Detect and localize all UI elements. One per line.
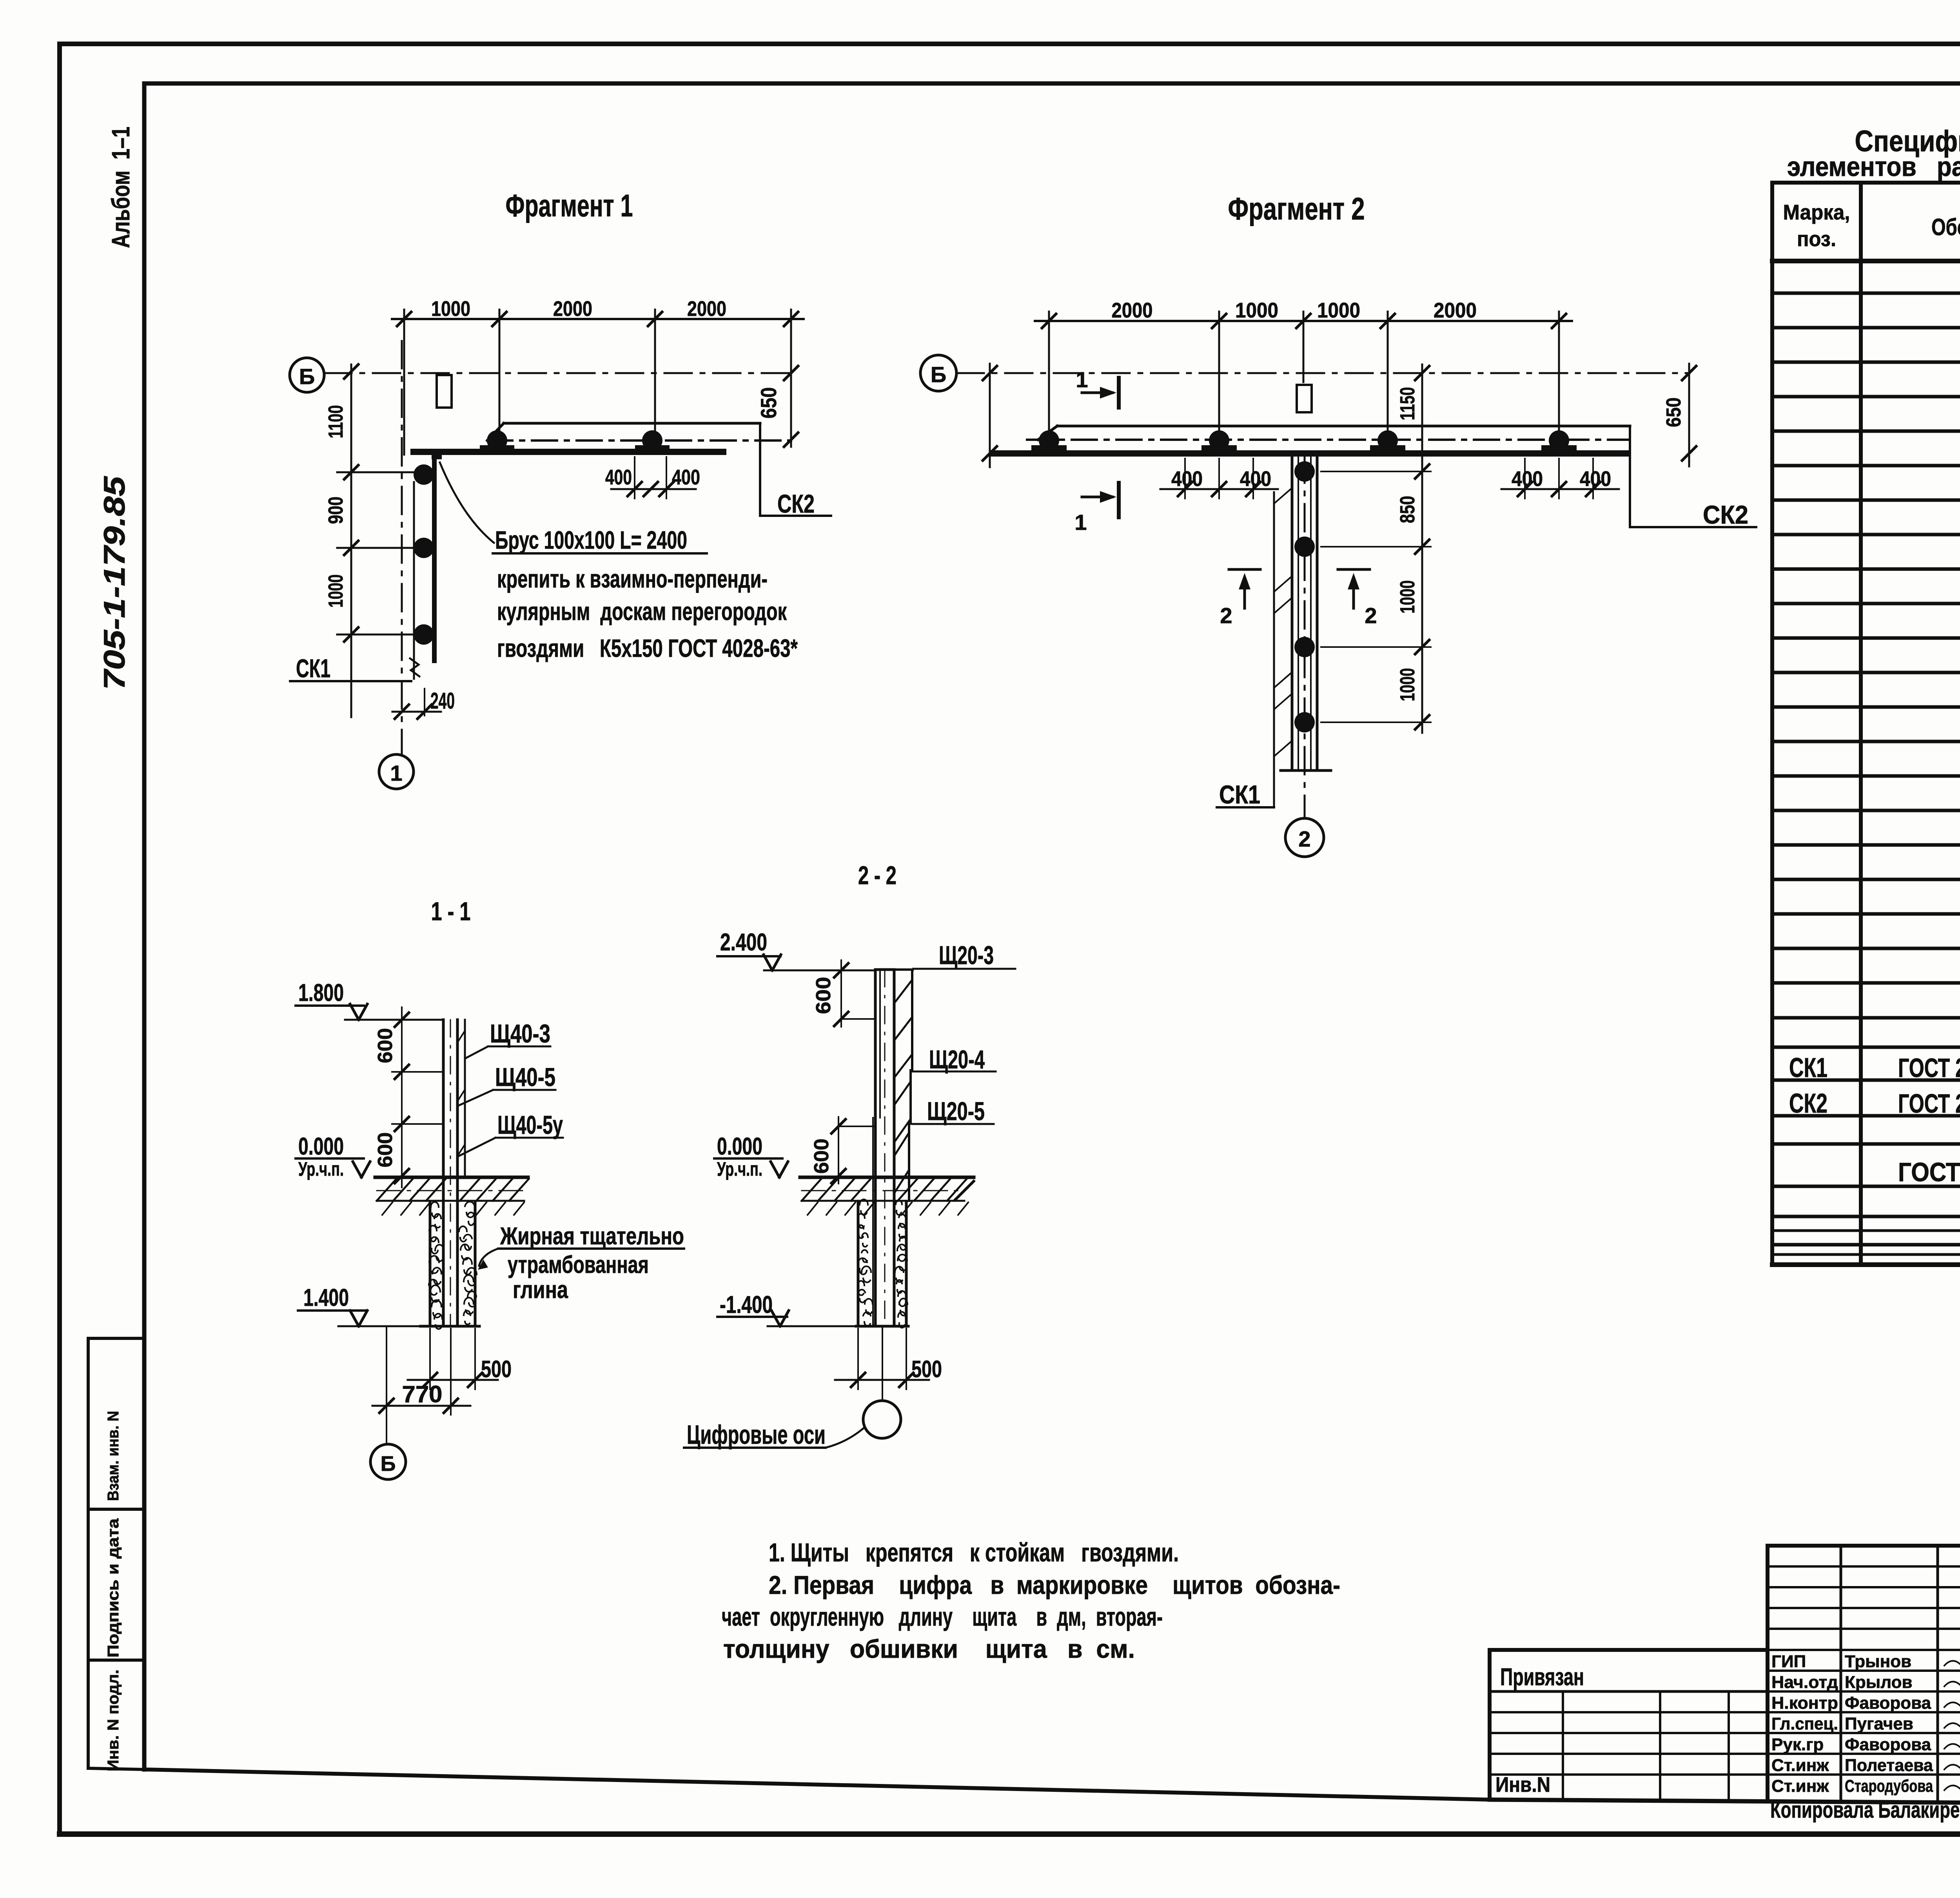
sec1 ground line bbox=[375, 1176, 528, 1179]
sec2 floor hatch strip bbox=[802, 1179, 974, 1201]
svg-text:СК1: СК1 bbox=[1219, 780, 1260, 809]
svg-text:элементов разделительно - по: элементов разделительно - подпорных стен… bbox=[1787, 151, 1960, 182]
svg-text:400: 400 bbox=[672, 466, 700, 489]
specification table grid bbox=[1772, 183, 1960, 1265]
title block staff grid bbox=[1768, 1546, 1960, 1803]
frag2 offset line with hatches bbox=[1274, 488, 1292, 807]
svg-text:2000: 2000 bbox=[1112, 299, 1153, 322]
svg-text:Марка,: Марка, bbox=[1783, 201, 1850, 224]
svg-text:850: 850 bbox=[1396, 496, 1419, 523]
svg-text:-1.400: -1.400 bbox=[720, 1291, 773, 1318]
svg-text:Брус 100х100 L= 2400: Брус 100х100 L= 2400 bbox=[495, 526, 687, 554]
svg-text:Щ20-5: Щ20-5 bbox=[927, 1097, 985, 1126]
svg-text:600: 600 bbox=[374, 1132, 397, 1167]
svg-text:Гл.спец.: Гл.спец. bbox=[1771, 1714, 1838, 1733]
frag1 post СК2 circle 2 bbox=[635, 430, 670, 451]
sec1 600 dimension chain bbox=[374, 1007, 443, 1187]
svg-text:Полетаева: Полетаева bbox=[1845, 1756, 1933, 1775]
svg-text:Жирная тщательно: Жирная тщательно bbox=[500, 1223, 684, 1250]
frag1 annotation Брус 100х100 bbox=[493, 526, 707, 554]
frag1 axis 1 circle bbox=[379, 754, 414, 789]
svg-text:400: 400 bbox=[1171, 467, 1203, 491]
sec1 clay label bbox=[478, 1223, 684, 1303]
svg-text:705-1-179.85: 705-1-179.85 bbox=[98, 475, 131, 690]
sec2 level 0.000 bbox=[714, 1133, 788, 1180]
svg-text:СК2: СК2 bbox=[1789, 1088, 1828, 1118]
svg-text:Ур.ч.п.: Ур.ч.п. bbox=[298, 1158, 344, 1180]
svg-text:600: 600 bbox=[374, 1028, 397, 1063]
sec1 floor hatch strip bbox=[377, 1179, 529, 1201]
svg-text:Б: Б bbox=[299, 364, 315, 389]
svg-text:Привязан: Привязан bbox=[1500, 1664, 1584, 1691]
sec2 soil hatch marks bbox=[808, 1202, 968, 1215]
svg-text:Б: Б bbox=[931, 362, 946, 387]
svg-text:1.400: 1.400 bbox=[303, 1284, 349, 1311]
svg-text:600: 600 bbox=[812, 977, 835, 1014]
svg-text:2: 2 bbox=[1365, 603, 1377, 628]
sec2 level -1.400 bbox=[717, 1291, 856, 1326]
frag2 horizontal wall boards bbox=[990, 426, 1630, 457]
sec2 label Щ20-3 bbox=[912, 941, 1015, 972]
svg-text:Фрагмент 1: Фрагмент 1 bbox=[506, 188, 633, 223]
frag1 brus rectangle on axis bbox=[437, 375, 452, 408]
svg-text:1000: 1000 bbox=[1396, 668, 1419, 702]
svg-text:Щ40-5: Щ40-5 bbox=[495, 1062, 555, 1091]
svg-text:Щ40-3: Щ40-3 bbox=[490, 1019, 550, 1048]
frag2 650 dimension bbox=[1662, 364, 1696, 466]
sec2 axis vertical to circle bbox=[882, 1326, 883, 1401]
svg-text:900: 900 bbox=[325, 497, 347, 524]
svg-text:1000: 1000 bbox=[1396, 580, 1419, 614]
sec1 level 1.800 bbox=[296, 979, 443, 1020]
title block left part grid bbox=[1490, 1691, 1768, 1801]
sec2 label Щ20-5 bbox=[912, 1097, 994, 1126]
frag1 corner brus 100x100 bbox=[432, 449, 442, 459]
svg-text:0.000: 0.000 bbox=[298, 1133, 344, 1160]
frag1 top dimension line bbox=[392, 297, 804, 326]
title block outline bbox=[1490, 1546, 1960, 1803]
svg-text:400: 400 bbox=[1512, 467, 1543, 491]
frag2 axis Б line bbox=[956, 372, 1690, 374]
sec2 600 dimension upper bbox=[812, 960, 875, 1027]
svg-text:Цифровые оси: Цифровые оси bbox=[687, 1420, 826, 1450]
svg-text:СК2: СК2 bbox=[1703, 500, 1748, 529]
svg-text:ГОСТ 2708-75: ГОСТ 2708-75 bbox=[1898, 1053, 1960, 1083]
svg-text:Пугачев: Пугачев bbox=[1845, 1714, 1913, 1733]
sec2 label Цифровые оси bbox=[684, 1420, 863, 1450]
frag1 brus leader line bbox=[440, 462, 494, 543]
frag2 400-400 dimension left bbox=[1160, 459, 1278, 499]
frag2 400-400 dimension right bbox=[1501, 459, 1619, 499]
frag2 СК1 label bbox=[1217, 780, 1274, 809]
svg-text:Ур.ч.п.: Ур.ч.п. bbox=[717, 1158, 762, 1180]
frag2 vertical wall axis bbox=[1304, 455, 1306, 818]
svg-text:650: 650 bbox=[1662, 397, 1685, 427]
frag1 СК2 label bbox=[760, 423, 831, 518]
svg-text:1000: 1000 bbox=[1235, 299, 1278, 322]
frag2 vertical wall boards bbox=[1281, 455, 1331, 770]
sec1 post СК1 bbox=[443, 1020, 465, 1326]
svg-text:СК1: СК1 bbox=[1789, 1052, 1828, 1083]
frag1 vertical wall posts СК1 bbox=[414, 464, 434, 645]
sec1 level 0.000 bbox=[296, 1133, 370, 1180]
frag1 axis 1 line bbox=[401, 341, 403, 753]
svg-text:500: 500 bbox=[911, 1356, 942, 1382]
sec2 label Щ20-4 bbox=[912, 1045, 996, 1074]
svg-text:0.000: 0.000 bbox=[717, 1133, 762, 1160]
frag2 wall posts bbox=[1031, 430, 1577, 451]
svg-text:1: 1 bbox=[1076, 367, 1088, 392]
svg-text:чает округленную длину щ: чает округленную длину щита в дм, вторая… bbox=[722, 1602, 1163, 1631]
svg-text:400: 400 bbox=[1580, 467, 1611, 491]
sec1 500 dimension bbox=[408, 1329, 512, 1389]
svg-text:2000: 2000 bbox=[1434, 299, 1477, 322]
sec2 level 2.400 bbox=[717, 929, 875, 970]
sec1 soil hatch marks bbox=[382, 1202, 524, 1215]
frag2 СК2 label bbox=[1630, 426, 1756, 529]
svg-text:утрамбованная: утрамбованная bbox=[508, 1251, 649, 1278]
svg-text:ГОСТ 2708-75: ГОСТ 2708-75 bbox=[1898, 1089, 1960, 1118]
svg-text:1150: 1150 bbox=[1396, 387, 1419, 421]
svg-text:1: 1 bbox=[1074, 510, 1087, 535]
svg-text:240: 240 bbox=[430, 688, 455, 714]
svg-text:поз.: поз. bbox=[1797, 227, 1836, 251]
svg-text:глина: глина bbox=[513, 1276, 568, 1303]
svg-text:400: 400 bbox=[1240, 467, 1271, 491]
frag2 section mark 1 lower bbox=[1074, 483, 1119, 535]
svg-text:770: 770 bbox=[402, 1381, 443, 1407]
svg-text:500: 500 bbox=[481, 1356, 512, 1382]
svg-text:1100: 1100 bbox=[325, 405, 347, 439]
svg-text:гвоздями К5х150 ГОСТ 4028-63: гвоздями К5х150 ГОСТ 4028-63* bbox=[497, 634, 798, 662]
svg-text:Обозначение: Обозначение bbox=[1931, 214, 1960, 240]
svg-text:1000: 1000 bbox=[1317, 299, 1360, 322]
frag1 400-400 dimension bbox=[605, 457, 700, 499]
frag2 dimension extension lines bbox=[1049, 312, 1559, 430]
sec2 boards Щ20 with hatching bbox=[894, 970, 912, 1201]
sec1 level -1.400 bbox=[298, 1284, 421, 1326]
sec2 numeric axis circle bbox=[863, 1401, 901, 1438]
svg-text:ГИП: ГИП bbox=[1771, 1652, 1806, 1671]
sec2 post СК1 bbox=[873, 970, 894, 1326]
sec2 600 dimension lower bbox=[810, 1117, 875, 1184]
frag1 horizontal wall boards bbox=[410, 423, 791, 455]
svg-text:2.400: 2.400 bbox=[720, 929, 767, 956]
svg-text:1.800: 1.800 bbox=[298, 979, 344, 1006]
sec2 clay fill hatching bbox=[858, 1199, 907, 1327]
svg-text:крепить к взаимно-перпенди-: крепить к взаимно-перпенди- bbox=[497, 565, 768, 593]
svg-text:Трынов: Трынов bbox=[1845, 1652, 1911, 1671]
table header texts bbox=[1783, 201, 1960, 252]
sec2 pit walls bbox=[856, 1202, 908, 1326]
svg-text:1000: 1000 bbox=[325, 575, 347, 608]
svg-text:Б: Б bbox=[381, 1452, 396, 1476]
frag2 top dimension line bbox=[1035, 299, 1572, 328]
svg-text:600: 600 bbox=[810, 1138, 833, 1174]
sec2 ground line bbox=[800, 1176, 974, 1179]
frag2 brus rectangle on axis bbox=[1297, 385, 1312, 412]
frag2 section mark 2 right bbox=[1338, 569, 1377, 628]
svg-text:ГОСТ 8486-66**: ГОСТ 8486-66** bbox=[1898, 1157, 1960, 1187]
svg-text:Фаворова: Фаворова bbox=[1845, 1693, 1931, 1713]
svg-text:2: 2 bbox=[1298, 827, 1310, 851]
sec1 axis Б vertical bbox=[386, 1326, 387, 1444]
svg-text:Фаворова: Фаворова bbox=[1845, 1735, 1931, 1754]
svg-text:Ст.инж: Ст.инж bbox=[1771, 1777, 1829, 1796]
svg-text:2000: 2000 bbox=[553, 297, 592, 321]
svg-text:Н.контр: Н.контр bbox=[1771, 1693, 1838, 1713]
svg-text:Щ40-5у: Щ40-5у bbox=[497, 1110, 563, 1139]
frag1 240 dimension bbox=[392, 688, 455, 719]
sec1 label Щ40-5у bbox=[459, 1110, 563, 1156]
sec1 clay fill hatching bbox=[429, 1202, 477, 1329]
svg-text:1. Щиты крепятся к стойкам: 1. Щиты крепятся к стойкам гвоздями. bbox=[769, 1538, 1179, 1567]
svg-text:Копировала Балакирева: Копировала Балакирева bbox=[1770, 1797, 1960, 1823]
svg-text:Взам. инв. N: Взам. инв. N bbox=[105, 1411, 122, 1501]
left stamp column boxes bbox=[88, 1338, 144, 1769]
frag1 dimension extension lines bbox=[404, 310, 791, 455]
svg-text:Нач.отд: Нач.отд bbox=[1771, 1673, 1838, 1692]
svg-text:400: 400 bbox=[605, 466, 632, 489]
svg-text:Инв. N подл.: Инв. N подл. bbox=[105, 1670, 122, 1771]
frag1 wall break mark bbox=[410, 658, 419, 676]
sec1 pit walls bbox=[421, 1202, 479, 1326]
svg-text:Щ20-4: Щ20-4 bbox=[929, 1045, 985, 1074]
frag1 left dimension chain bbox=[325, 364, 415, 717]
svg-text:2 - 2: 2 - 2 bbox=[858, 861, 897, 890]
svg-text:1 - 1: 1 - 1 bbox=[431, 897, 471, 926]
svg-text:Стародубова: Стародубова bbox=[1845, 1777, 1933, 1796]
svg-text:2: 2 bbox=[1220, 603, 1232, 628]
sec1 axis Б circle bbox=[370, 1444, 406, 1479]
svg-text:Фрагмент 2: Фрагмент 2 bbox=[1228, 191, 1365, 226]
svg-text:СК1: СК1 bbox=[296, 654, 330, 683]
svg-text:кулярным доскам перегородок: кулярным доскам перегородок bbox=[497, 597, 787, 625]
svg-text:Крылов: Крылов bbox=[1845, 1673, 1913, 1692]
frag2 section mark 1 upper bbox=[1076, 367, 1119, 408]
svg-text:Инв.N: Инв.N bbox=[1495, 1773, 1550, 1796]
svg-text:1000: 1000 bbox=[431, 297, 470, 321]
frag2 left extension with ticks bbox=[983, 364, 997, 467]
svg-text:Ст.инж: Ст.инж bbox=[1771, 1756, 1829, 1775]
sec2 500 dimension bbox=[835, 1329, 942, 1389]
frag1 vertical wall board bbox=[414, 459, 437, 679]
frag2 axis Б circle bbox=[920, 355, 956, 391]
staff rows bbox=[1771, 1652, 1960, 1796]
svg-text:Щ20-3: Щ20-3 bbox=[939, 941, 994, 970]
sec1 label Щ40-3 bbox=[466, 1019, 550, 1058]
sec1 770 dimension bbox=[372, 1329, 470, 1415]
svg-text:Альбом 1–1: Альбом 1–1 bbox=[107, 127, 135, 248]
frag2 axis 2 circle bbox=[1285, 818, 1324, 857]
table rows text bbox=[1789, 257, 1960, 1188]
svg-text:толщину обшивки щита в: толщину обшивки щита в см. bbox=[723, 1634, 1135, 1663]
svg-text:Подпись и дата: Подпись и дата bbox=[105, 1518, 122, 1658]
sec1 label Щ40-5 bbox=[459, 1062, 555, 1105]
frag1 axis Б line bbox=[324, 372, 796, 374]
frag2 1150/850/1000/1000 dimension chain bbox=[1321, 364, 1431, 733]
frag2 section mark 2 left bbox=[1220, 569, 1260, 628]
svg-text:1: 1 bbox=[390, 761, 402, 785]
frag2 vertical wall posts bbox=[1294, 461, 1315, 732]
svg-text:СК2: СК2 bbox=[777, 489, 815, 518]
frag1 650 dimension bbox=[756, 366, 798, 447]
svg-text:2000: 2000 bbox=[687, 297, 726, 321]
frag1 СК1 label bbox=[290, 654, 411, 683]
frag1 post СК2 circle 1 bbox=[480, 430, 514, 451]
svg-text:2. Первая цифра в маркир: 2. Первая цифра в маркировке щитов обозн… bbox=[769, 1570, 1340, 1599]
frag1 axis Б circle bbox=[290, 358, 324, 392]
svg-text:Рук.гр: Рук.гр bbox=[1771, 1735, 1824, 1754]
svg-text:650: 650 bbox=[756, 387, 781, 419]
